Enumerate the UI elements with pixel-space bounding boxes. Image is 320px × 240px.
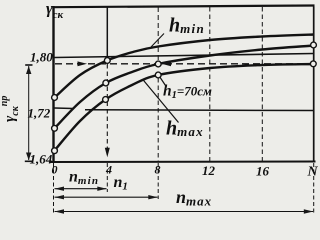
svg-text:1,80: 1,80 (30, 50, 53, 65)
svg-text:N: N (307, 165, 319, 180)
svg-text:8: 8 (155, 163, 161, 177)
svg-text:12: 12 (202, 163, 216, 178)
svg-text:0: 0 (52, 163, 58, 177)
svg-text:16: 16 (256, 164, 270, 179)
svg-text:4: 4 (105, 163, 112, 177)
svg-text:1,64: 1,64 (30, 152, 53, 167)
svg-text:1,72: 1,72 (28, 106, 51, 121)
svg-text:h1=70см: h1=70см (163, 83, 212, 102)
